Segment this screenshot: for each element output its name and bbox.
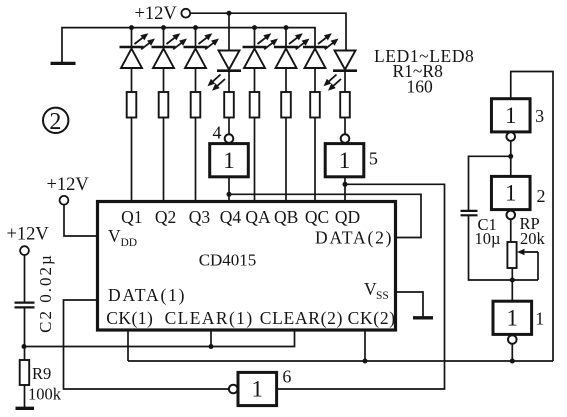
label R9	[32, 364, 51, 383]
svg-text:6: 6	[282, 366, 291, 386]
svg-text:4: 4	[213, 123, 222, 143]
svg-text:+12V: +12V	[7, 225, 50, 245]
svg-text:CD4015: CD4015	[199, 251, 257, 270]
svg-text:10µ: 10µ	[475, 229, 501, 248]
resistor R1	[127, 92, 137, 118]
wire VDD	[64, 205, 98, 236]
wire C1 bottom branch	[469, 215, 513, 280]
svg-text:DD: DD	[121, 237, 138, 249]
svg-text:1: 1	[507, 305, 519, 330]
svg-text:+12V: +12V	[47, 175, 90, 195]
junction CLEAR(1)	[209, 344, 214, 349]
inverter U3 output bubble	[506, 132, 515, 141]
svg-text:Q3: Q3	[189, 207, 211, 227]
resistor R8	[340, 92, 350, 118]
junction QD feedback branch	[343, 182, 348, 187]
LED LED8 (inverted)	[324, 51, 358, 91]
inverter U3	[491, 99, 530, 132]
op-amp U1 CD4015 shift register	[98, 202, 396, 331]
wire LED4 to resistor	[228, 71, 230, 92]
wire DATA(1) from inverter 6	[64, 300, 229, 389]
svg-text:3: 3	[535, 106, 544, 126]
svg-text:QD: QD	[335, 207, 360, 227]
wire R to pin Q3	[195, 118, 197, 203]
wire rail stub col1	[131, 28, 133, 47]
wire C1 top branch	[469, 156, 511, 210]
LED LED4 (inverted)	[208, 51, 242, 91]
resistor R9	[20, 360, 30, 385]
inverter U4	[210, 144, 249, 177]
potentiometer RP	[507, 242, 516, 268]
pin label 1	[535, 308, 544, 328]
wire inverter 4 input to Q4	[228, 177, 230, 202]
svg-text:1: 1	[223, 148, 235, 173]
wire inverter 5 input to QD	[344, 177, 346, 202]
svg-text:QA: QA	[245, 207, 271, 227]
junction RP bottom node	[510, 278, 515, 283]
svg-text:160: 160	[407, 77, 434, 97]
wire U3 out to U2 in	[510, 141, 512, 177]
LED LED2	[152, 33, 188, 68]
LED LED7	[303, 33, 339, 68]
label 10u	[475, 229, 501, 248]
svg-text:QC: QC	[305, 207, 329, 227]
svg-text:DATA(2): DATA(2)	[315, 228, 393, 248]
svg-text:2: 2	[537, 186, 546, 206]
svg-text:C2 0.02µ: C2 0.02µ	[36, 253, 55, 333]
wire CK(2) pin	[364, 330, 366, 362]
power terminal +12V (top LED rail)	[135, 4, 191, 24]
svg-text:100k: 100k	[28, 385, 62, 404]
pin label 3	[535, 106, 544, 126]
ground (VSS)	[413, 316, 433, 319]
inverter U2 output bubble	[506, 211, 515, 220]
wire R to pin QA	[254, 118, 256, 203]
svg-text:Q2: Q2	[155, 207, 176, 227]
power terminal +12V (VDD)	[47, 175, 90, 205]
wire rail stub col5	[285, 28, 287, 47]
wire CLEAR(1) pin	[210, 330, 212, 347]
junction rail2 x=131.5	[129, 25, 134, 30]
inverter U5	[325, 144, 364, 177]
wire CK(1) pin	[127, 330, 129, 362]
inverter U1b output bubble	[508, 335, 517, 344]
inverter U4 output bubble	[225, 134, 234, 143]
inverter U6	[238, 372, 277, 405]
wire LED5 to resistor	[254, 68, 256, 92]
label 20k	[520, 229, 546, 248]
wire rail stub col3	[195, 28, 197, 47]
inverter U1b	[493, 301, 532, 334]
svg-text:+12V: +12V	[135, 4, 178, 24]
junction Q4/DATA(2) branch	[227, 192, 232, 197]
junction C1 top	[508, 154, 513, 159]
wire R4 to inverter 4 output	[228, 118, 230, 135]
wire R8 to inverter 5 output	[344, 118, 346, 135]
wire LED cathode rail (y=28)	[62, 28, 315, 63]
wire +12V rail to LED4/LED8 tops	[190, 13, 346, 50]
power terminal +12V (timing network)	[7, 225, 50, 256]
junction rail2 x=163.5	[161, 25, 166, 30]
label RP	[520, 214, 540, 233]
wire +12V to C2	[24, 255, 26, 302]
resistor R4	[224, 92, 234, 118]
svg-text:5: 5	[369, 148, 378, 168]
wire R to pin QB	[285, 118, 287, 203]
label C2 0.02u	[36, 253, 55, 333]
capacitor C2	[15, 303, 35, 308]
label 160	[407, 77, 434, 97]
junction rail2 x=286	[284, 25, 289, 30]
inverter U2	[491, 176, 530, 209]
resistor R6	[281, 92, 291, 118]
wire rail stub col4	[254, 28, 256, 47]
wire R to pin Q1	[131, 118, 133, 203]
wire rail stub col2	[163, 28, 165, 47]
svg-text:1: 1	[535, 308, 544, 328]
svg-text:Q1: Q1	[121, 207, 142, 227]
wire CLEAR(1)/CLEAR(2) net	[25, 330, 295, 347]
resistor R2	[159, 92, 169, 118]
resistor R5	[250, 92, 260, 118]
svg-text:Q4: Q4	[220, 207, 242, 227]
ground (R9)	[16, 407, 35, 410]
label 100k	[28, 385, 62, 404]
svg-text:1: 1	[252, 377, 264, 402]
svg-text:QB: QB	[274, 207, 298, 227]
wire U2 out to RP	[510, 219, 512, 242]
wire LED7 to resistor	[314, 68, 316, 92]
wire QD feedback to inverter 6	[277, 184, 445, 389]
inverter U5 output bubble	[341, 134, 350, 143]
wire LED3 to resistor	[195, 68, 197, 92]
pin label 5	[369, 148, 378, 168]
wire LED1 to resistor	[131, 68, 133, 92]
wire VSS	[396, 292, 424, 317]
svg-text:1: 1	[505, 103, 517, 128]
svg-text:1: 1	[505, 181, 517, 206]
svg-text:R9: R9	[32, 364, 51, 383]
wiper of RP	[517, 249, 538, 280]
wire R to pin QC	[314, 118, 316, 203]
svg-text:CK(2): CK(2)	[348, 308, 396, 328]
svg-text:SS: SS	[376, 290, 389, 302]
junction C2/R9/CLEAR	[22, 344, 27, 349]
pin label 6	[282, 366, 291, 386]
wire LED2 to resistor	[163, 68, 165, 92]
svg-text:2: 2	[49, 109, 61, 135]
resistor R7	[310, 92, 320, 118]
wire CK bus	[128, 360, 553, 362]
label R1~R8	[393, 61, 444, 81]
wire U1b out to CK bus	[511, 344, 513, 361]
junction CK(2)	[363, 359, 368, 364]
inverter U6 output bubble	[229, 385, 238, 394]
wire RP to inverter 1 input	[511, 268, 513, 301]
label LED1~LED8	[374, 46, 474, 66]
svg-text:V: V	[108, 226, 121, 246]
wire wiper loop bottom	[512, 279, 538, 281]
svg-text:20k: 20k	[520, 229, 546, 248]
wire node to R9	[24, 347, 26, 361]
junction rail1-LED4	[227, 11, 232, 16]
wire CK bus to inverter 3 input	[511, 72, 553, 362]
wire C2 to node	[24, 307, 26, 346]
LED LED1	[120, 33, 156, 68]
figure number 2 (circled)	[43, 108, 68, 136]
pin label 4	[213, 123, 222, 143]
label C1	[478, 215, 497, 234]
wire Q4 to DATA(2)	[229, 194, 421, 237]
wire R to pin Q2	[163, 118, 165, 203]
wire LED8 to resistor	[344, 71, 346, 92]
svg-text:CLEAR(1): CLEAR(1)	[165, 308, 254, 328]
svg-text:CLEAR(2): CLEAR(2)	[260, 308, 343, 328]
LED LED6	[274, 33, 310, 68]
junction rail2 x=195.5	[193, 25, 198, 30]
pin label 2	[537, 186, 546, 206]
svg-text:DATA(1): DATA(1)	[108, 285, 186, 305]
LED LED5	[243, 33, 279, 68]
junction rail2 x=254.5	[252, 25, 257, 30]
capacitor C1	[461, 211, 478, 215]
svg-text:CK(1): CK(1)	[106, 308, 153, 328]
ground (left rail termination)	[51, 62, 76, 65]
svg-text:1: 1	[339, 148, 351, 173]
junction U1b output on CK bus	[510, 359, 515, 364]
wire LED6 to resistor	[285, 68, 287, 92]
LED LED3	[184, 33, 220, 68]
resistor R3	[191, 92, 201, 118]
wire R9 to ground	[24, 385, 26, 408]
